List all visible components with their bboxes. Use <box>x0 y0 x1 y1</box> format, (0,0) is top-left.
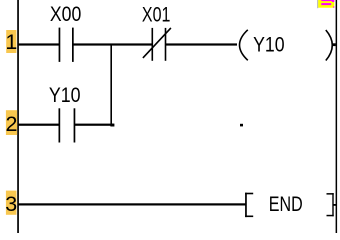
svg-text:3: 3 <box>5 192 17 216</box>
svg-text:X01: X01 <box>142 2 171 26</box>
cursor marker icon top right <box>317 0 334 8</box>
svg-text:1: 1 <box>5 30 17 54</box>
wire rung1 X00 to X01 <box>73 43 152 45</box>
step number label 3 <box>5 191 17 216</box>
branch bottom junction nub <box>110 124 114 127</box>
wire rung2 Y10 to branch <box>75 124 114 126</box>
svg-text:END: END <box>269 192 303 216</box>
coil Y10 left paren <box>240 30 248 61</box>
END right bracket <box>327 193 334 216</box>
contact Y10 (NO) <box>59 108 76 142</box>
svg-text:Y10: Y10 <box>253 32 285 56</box>
wire rung3 rail to END <box>18 203 246 205</box>
svg-text:Y10: Y10 <box>49 83 81 107</box>
contact X00 (NO) <box>59 28 74 62</box>
branch vertical wire <box>110 44 112 125</box>
wire rung1 X01 to coil <box>166 43 237 45</box>
right power rail <box>336 0 338 233</box>
contact X01 (NC) <box>143 28 171 61</box>
wire rung2 rail to Y10 contact <box>18 124 59 126</box>
wire coil to right rail <box>332 43 336 46</box>
coil Y10 right paren <box>326 30 333 61</box>
svg-text:2: 2 <box>6 112 18 136</box>
svg-text:X00: X00 <box>50 2 81 26</box>
END left bracket <box>245 193 253 217</box>
step number label 2 <box>6 110 18 136</box>
stray dot artifact <box>240 124 243 127</box>
step number label 1 <box>5 30 17 54</box>
wire rung1 rail to X00 <box>18 43 59 45</box>
left power rail <box>17 0 19 233</box>
wire END bracket to right rail <box>333 204 336 206</box>
